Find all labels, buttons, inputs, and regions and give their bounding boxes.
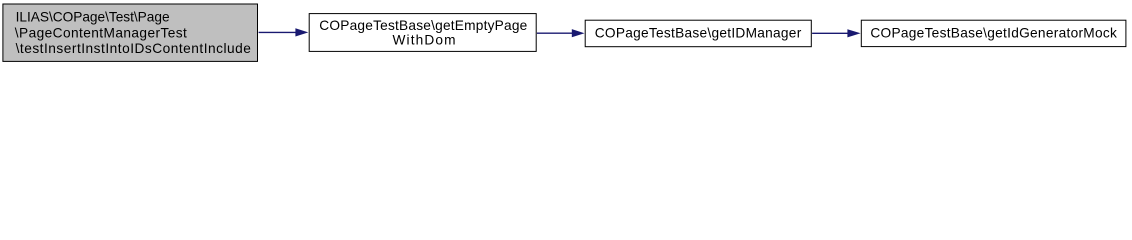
svg-text:\testInsertInstIntoIDsContentI: \testInsertInstIntoIDsContentInclude (16, 41, 251, 56)
svg-text:\PageContentManagerTest: \PageContentManagerTest (15, 25, 187, 40)
edge 3: getIDManager -> getIdGeneratorMock (812, 29, 861, 37)
svg-text:COPageTestBase\getEmptyPage: COPageTestBase\getEmptyPage (319, 18, 527, 33)
node: ILIAS\COPage\Test\Page\PageContentManagerTest\testInsertInstIntoIDsContentInclude (root node, grey fill) (3, 4, 258, 61)
svg-text:WithDom: WithDom (393, 33, 456, 48)
svg-text:ILIAS\COPage\Test\Page: ILIAS\COPage\Test\Page (16, 10, 170, 25)
node: COPageTestBase\getEmptyPageWithDom (309, 14, 536, 52)
edge 2: getEmptyPageWithDom -> getIDManager (537, 29, 585, 37)
svg-text:COPageTestBase\getIDManager: COPageTestBase\getIDManager (595, 26, 802, 41)
node: COPageTestBase\getIdGeneratorMock (861, 20, 1126, 46)
svg-text:COPageTestBase\getIdGeneratorM: COPageTestBase\getIdGeneratorMock (870, 26, 1117, 41)
edge 1: root -> getEmptyPageWithDom (259, 28, 309, 36)
node: COPageTestBase\getIDManager (585, 20, 811, 47)
